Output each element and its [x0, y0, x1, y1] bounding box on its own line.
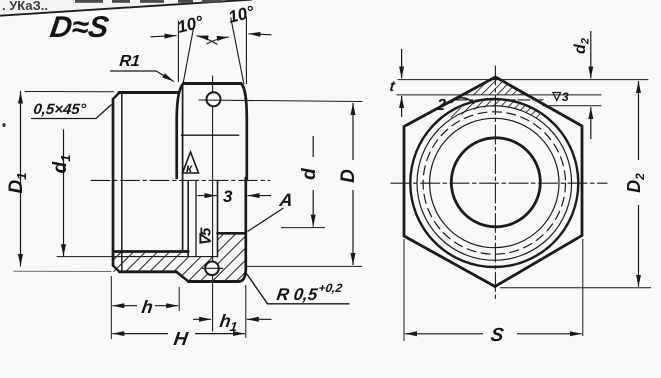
svg-text:D: D	[338, 169, 359, 183]
hex right end face	[244, 178, 247, 269]
extension line apex level	[398, 79, 648, 81]
hole horizontal tick bottom	[202, 267, 223, 269]
thread bore line (minor)	[113, 250, 188, 253]
dotted leader of cut-off title	[75, 0, 103, 3]
dim h1	[193, 285, 272, 338]
dim d	[281, 136, 325, 228]
long extension line through top hole to D dim	[199, 100, 362, 102]
vertical centerline	[494, 66, 496, 302]
chamfer bottom-left	[113, 266, 120, 272]
hidden groove circle (dashed)	[423, 112, 565, 254]
extension line hole top level	[397, 94, 601, 96]
svg-text:d: d	[299, 168, 320, 180]
D1 bottom extension	[14, 270, 111, 272]
cylinder top edge	[119, 91, 178, 94]
svg-text:+0,2: +0,2	[318, 281, 344, 295]
surface finish triangle with k	[183, 152, 199, 173]
svg-text:A: A	[277, 190, 294, 210]
step chamfer to cylinder	[176, 272, 188, 282]
svg-text:. УКаЗ..: . УКаЗ..	[2, 0, 48, 13]
wire hole top circle	[207, 92, 221, 106]
svg-text:∇5: ∇5	[198, 227, 215, 246]
svg-text:R1: R1	[119, 52, 141, 70]
chamfer circle D	[410, 99, 578, 267]
end hole bore circle	[451, 138, 540, 227]
groove left wall	[195, 181, 197, 257]
dim H	[112, 333, 245, 335]
hex head face junction line	[182, 84, 184, 251]
angle dim 10deg left	[151, 21, 218, 83]
svg-text:R 0,5: R 0,5	[275, 285, 319, 304]
svg-text:0,5×45°: 0,5×45°	[33, 101, 88, 118]
thread root thin line (major)	[113, 256, 218, 258]
wire hole bottom circle	[205, 262, 219, 276]
D1 top extension	[25, 91, 114, 93]
chamfer depth line	[121, 94, 123, 272]
finish mark ∇3	[553, 93, 561, 101]
dim S	[404, 239, 583, 341]
thread runout wall	[187, 181, 189, 257]
svg-text:3: 3	[562, 90, 569, 104]
dim t	[401, 49, 403, 117]
corner of adjacent sheet area (top-left), grey zone above diagonal	[0, 0, 250, 16]
dim d1 line	[63, 130, 65, 256]
thread crest circle	[430, 118, 559, 247]
cylinder left face	[112, 99, 115, 266]
axis centerline	[91, 179, 270, 181]
hex facet edge line	[182, 134, 239, 136]
left edge smudge	[2, 123, 5, 127]
groove right wall	[217, 181, 219, 257]
corner local section hatch (triangle at apex)	[462, 77, 527, 95]
extension line hole bottom level	[543, 105, 601, 107]
chamfer 0.5x45 top-left	[113, 93, 120, 100]
dim D1 line	[20, 92, 22, 267]
note R 0,5+0,2	[246, 273, 350, 304]
rounded corner R0.5	[239, 269, 246, 282]
angle dim 10deg right	[207, 17, 272, 85]
wire hole axis (end view)	[455, 99, 543, 101]
dim D	[247, 103, 363, 266]
cylinder bottom edge	[120, 270, 177, 273]
hatch: sectioned wall (bottom half)	[113, 233, 246, 281]
d1 bottom extension	[57, 256, 112, 258]
dim d2	[590, 31, 592, 139]
end wall bore line	[218, 232, 246, 235]
diagonal sheet edge line	[0, 0, 252, 16]
hex head silhouette left arc	[177, 84, 184, 179]
dim h	[111, 276, 179, 339]
horizontal centerline	[391, 182, 607, 184]
dim D2	[500, 81, 651, 288]
svg-text:D≈S: D≈S	[48, 11, 111, 44]
wire hole axis vertical	[212, 76, 214, 331]
thread root circle	[417, 106, 572, 261]
svg-text:к: к	[186, 161, 193, 175]
hex head top edge	[184, 82, 242, 85]
hex head silhouette right arc	[241, 84, 247, 181]
hex bottom edge (section outline)	[189, 280, 239, 283]
hexagon	[404, 77, 582, 287]
chamfer ring local section hatch band	[451, 100, 540, 120]
svg-text:3: 3	[223, 187, 233, 206]
